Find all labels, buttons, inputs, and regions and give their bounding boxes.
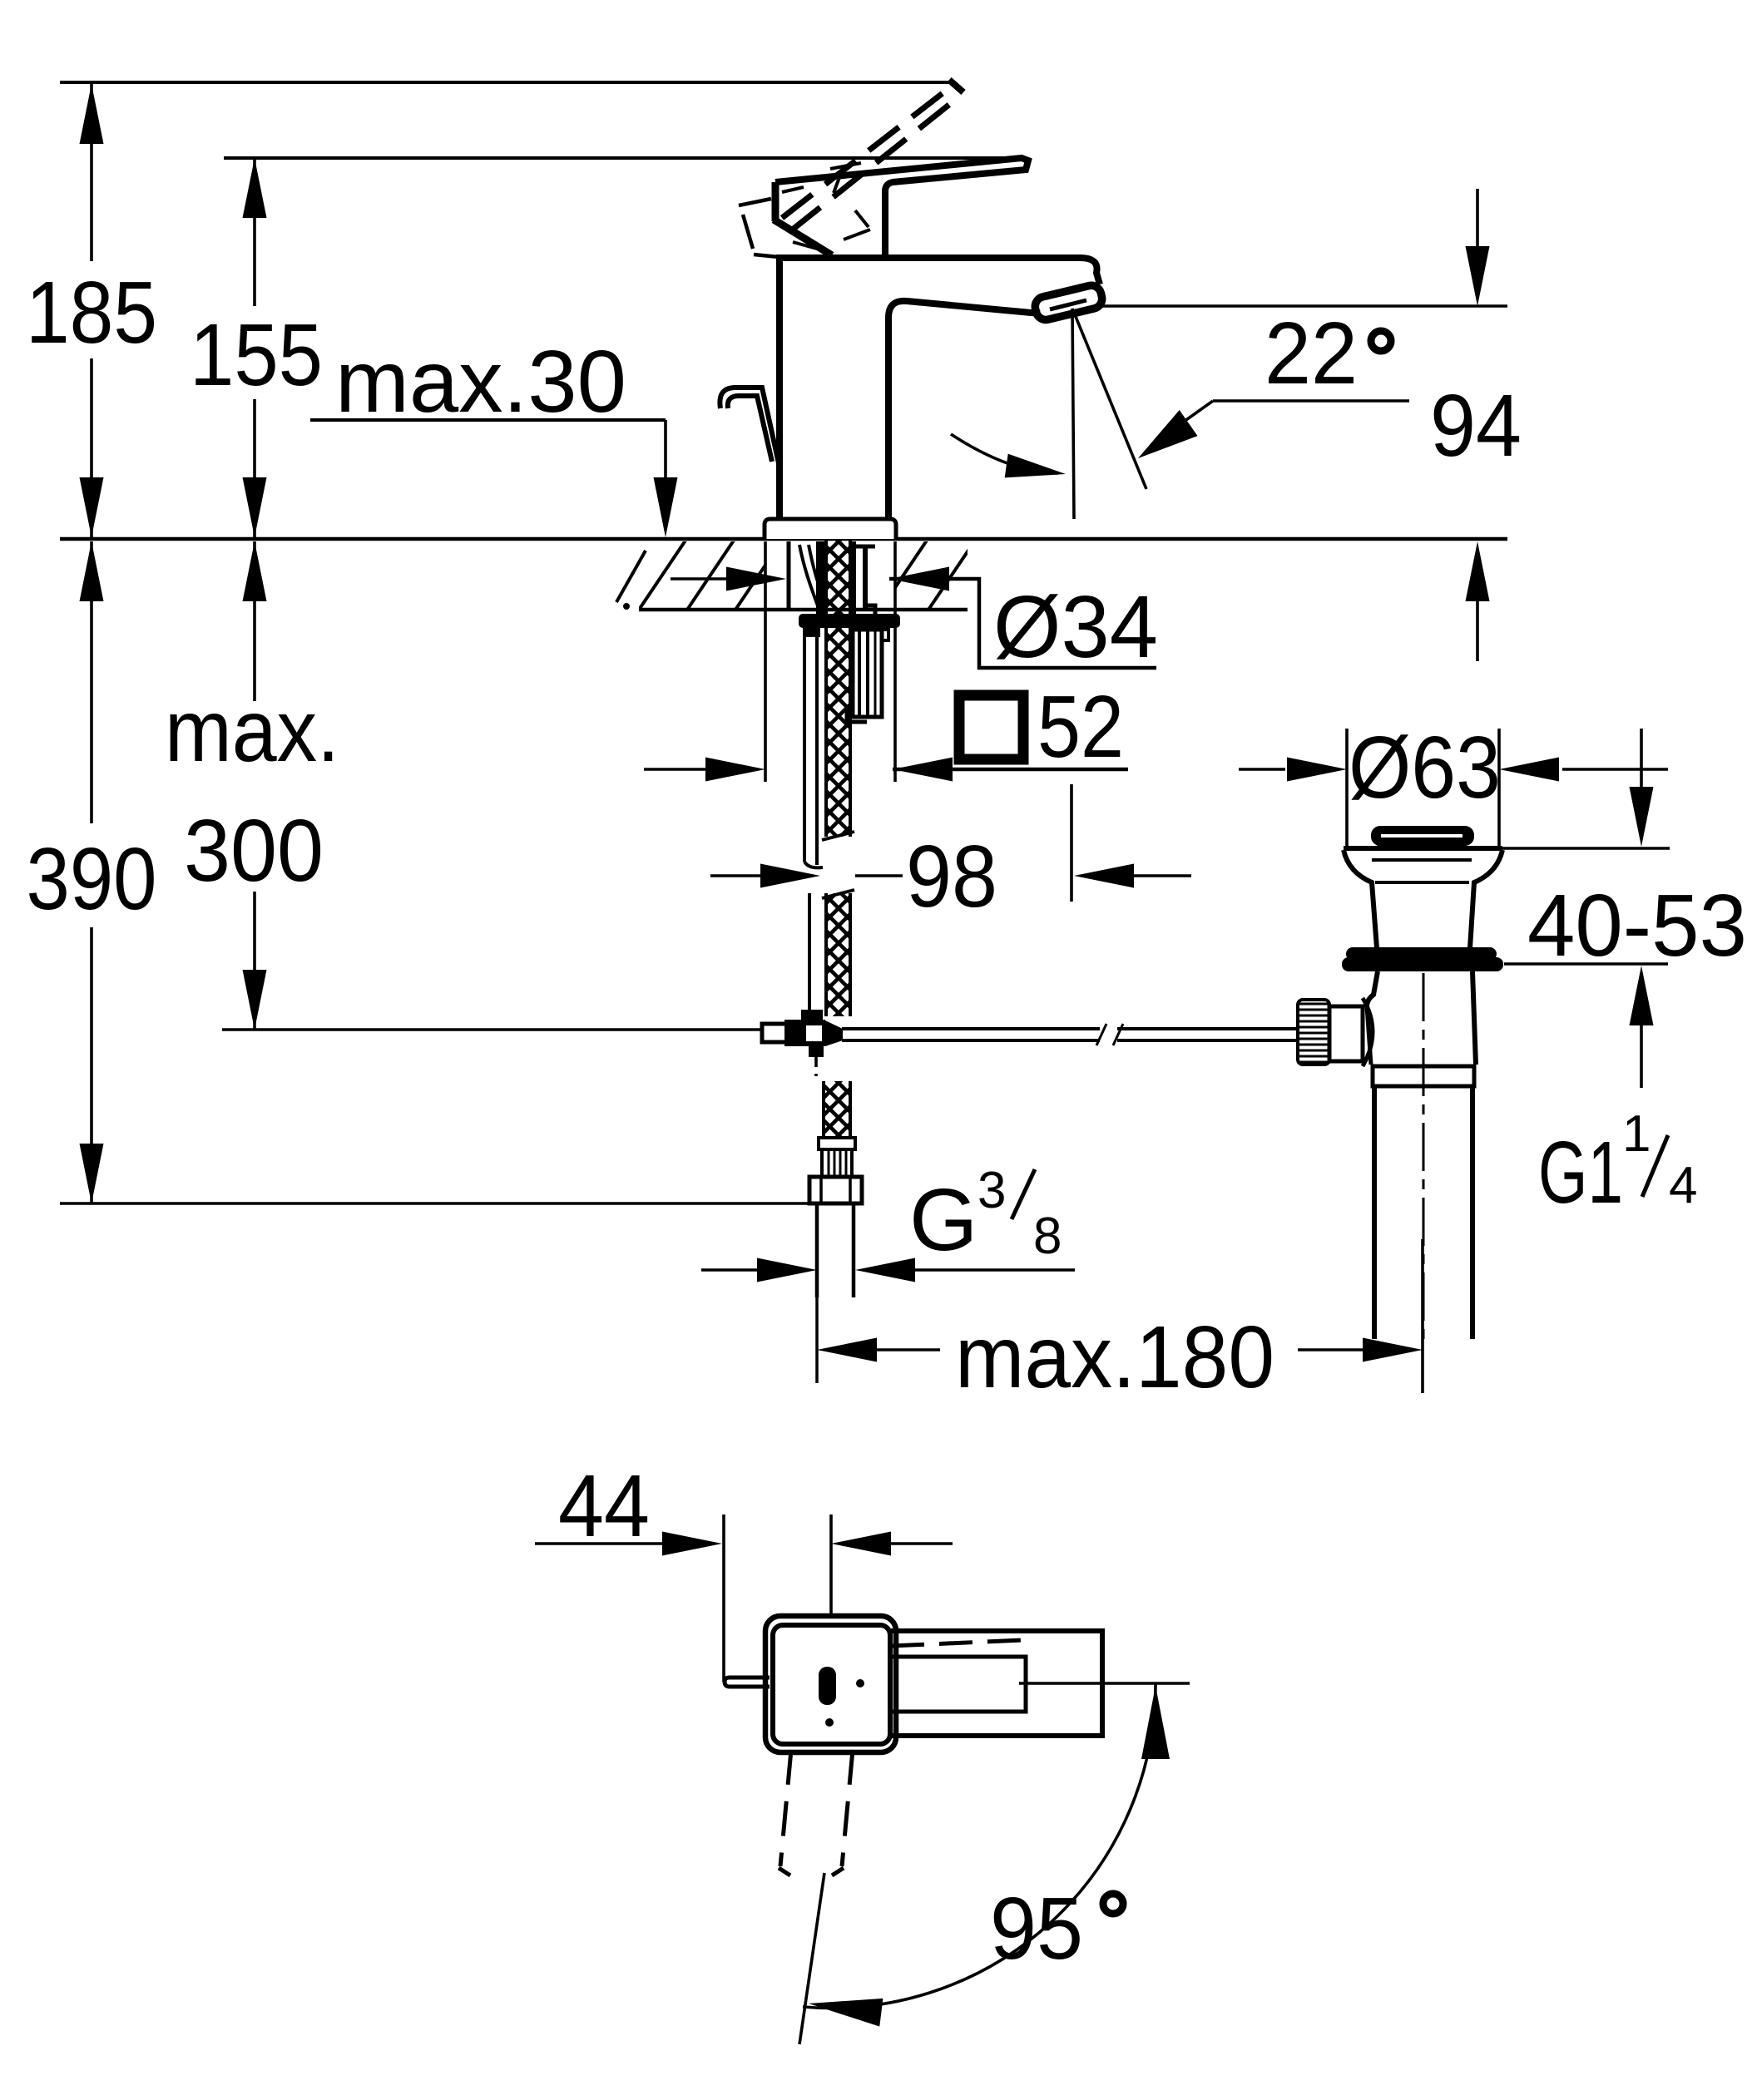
svg-text:4: 4 [1669,1157,1697,1214]
svg-text:Ø63: Ø63 [1349,719,1501,817]
svg-text:40-53: 40-53 [1527,877,1747,975]
svg-text:3: 3 [977,1162,1006,1219]
svg-text:G: G [909,1171,977,1269]
svg-text:8: 8 [1033,1208,1062,1265]
svg-text:Ø34: Ø34 [993,578,1158,676]
svg-text:98: 98 [906,828,997,926]
svg-text:44: 44 [558,1457,650,1555]
svg-text:52: 52 [1037,678,1124,776]
svg-text:155: 155 [190,306,323,404]
svg-text:max.180: max.180 [955,1308,1274,1406]
svg-text:300: 300 [184,802,324,900]
svg-text:390: 390 [27,830,157,928]
svg-text:G1: G1 [1538,1124,1623,1222]
svg-text:22: 22 [1265,304,1358,403]
svg-text:max.: max. [165,682,339,780]
svg-text:95: 95 [990,1880,1083,1978]
svg-text:max.30: max.30 [335,333,626,431]
svg-text:185: 185 [26,264,157,362]
svg-text:94: 94 [1430,377,1522,475]
svg-text:1: 1 [1622,1105,1651,1163]
